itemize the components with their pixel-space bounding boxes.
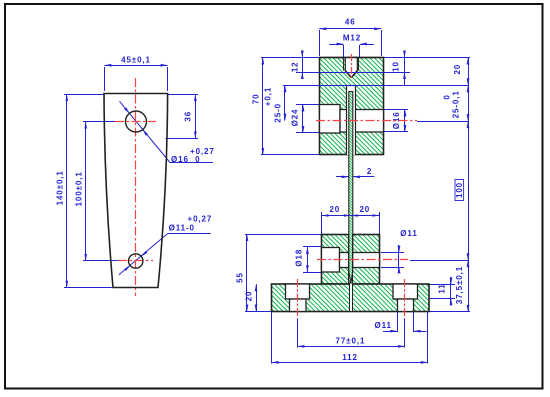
svg-text:2: 2 — [367, 167, 372, 176]
svg-text:20: 20 — [329, 205, 340, 214]
svg-text:0: 0 — [442, 94, 451, 99]
svg-text:Ø24: Ø24 — [290, 109, 299, 127]
svg-text:36: 36 — [184, 111, 193, 122]
svg-text:55: 55 — [236, 272, 245, 283]
svg-text:25-0,1: 25-0,1 — [451, 90, 460, 118]
svg-text:45±0,1: 45±0,1 — [121, 55, 151, 64]
svg-text:20: 20 — [245, 291, 254, 302]
svg-text:Ø11-0: Ø11-0 — [169, 223, 195, 232]
svg-text:20: 20 — [453, 64, 462, 75]
svg-text:Ø18: Ø18 — [295, 249, 304, 267]
svg-text:100±0,1: 100±0,1 — [74, 171, 83, 206]
svg-text:Ø11: Ø11 — [375, 321, 392, 330]
svg-text:M12: M12 — [343, 34, 361, 43]
svg-text:Ø16 0: Ø16 0 — [171, 155, 200, 164]
svg-text:12: 12 — [290, 61, 299, 72]
svg-text:112: 112 — [342, 353, 358, 362]
svg-text:37,5±0,1: 37,5±0,1 — [455, 266, 464, 304]
svg-text:25-0: 25-0 — [273, 103, 282, 123]
svg-text:46: 46 — [345, 18, 356, 27]
svg-text:20: 20 — [359, 205, 370, 214]
svg-text:100: 100 — [455, 182, 464, 198]
svg-text:+0,27: +0,27 — [188, 215, 213, 224]
svg-text:140±0,1: 140±0,1 — [56, 170, 65, 205]
svg-text:11: 11 — [438, 283, 447, 293]
svg-text:+0,1: +0,1 — [263, 87, 272, 106]
svg-text:77±0,1: 77±0,1 — [335, 337, 365, 346]
svg-text:Ø11: Ø11 — [400, 229, 417, 238]
svg-text:70: 70 — [251, 94, 260, 105]
svg-text:10: 10 — [392, 61, 401, 72]
